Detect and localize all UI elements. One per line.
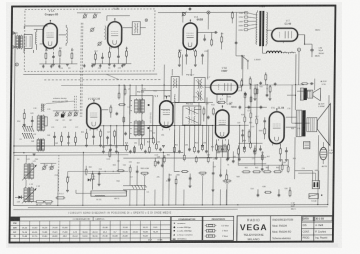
extra parts inside box bottom row	[42, 65, 44, 67]
misc verticals bottom	[57, 169, 59, 205]
dashed line y80	[44, 79, 161, 81]
wires output	[286, 116, 297, 118]
AF coupling	[254, 149, 256, 154]
series cap mains feed	[235, 12, 237, 41]
trimmer C11	[98, 42, 101, 45]
components below V1B	[94, 54, 96, 59]
resistor on rod feed	[57, 197, 64, 199]
top bus wires	[158, 11, 207, 13]
left side small parts	[23, 113, 25, 118]
tube V3	[183, 23, 197, 50]
bottom buses	[13, 204, 328, 207]
AM osc transformer	[37, 139, 40, 150]
junction circle	[207, 11, 210, 14]
AM bus lines	[14, 145, 129, 147]
misc top wires tuner	[123, 27, 132, 29]
scan shadow strip below frame	[8, 244, 338, 248]
bus left vertical	[13, 33, 15, 206]
right vertical wires	[317, 142, 320, 205]
tube V3B CF80	[159, 101, 173, 128]
IF transformer box FM505	[130, 96, 153, 139]
capacitor legend box	[171, 216, 202, 240]
grid parts	[263, 120, 266, 122]
AM converter tube V2	[87, 103, 101, 129]
coil under V4B	[218, 146, 227, 152]
AM osc coils lower-left	[24, 164, 28, 179]
bus y85	[61, 84, 304, 87]
woofer horn	[317, 104, 330, 146]
filament winding	[266, 51, 269, 53]
tube V4B	[215, 110, 229, 138]
mains switch	[242, 56, 247, 60]
components below V2	[86, 133, 88, 138]
electrolytic under woofer	[304, 141, 310, 148]
balun box	[24, 34, 32, 48]
small OM antenna coil	[41, 104, 42, 112]
germanium diode	[15, 196, 19, 198]
capacitor table	[10, 217, 171, 243]
IF can FM502	[183, 106, 201, 125]
misc AM bottom parts	[53, 135, 56, 137]
trimmer C9	[91, 28, 94, 31]
vertical x208 to V4A	[207, 49, 209, 79]
components right of V2	[110, 107, 112, 112]
output transformer woofer	[296, 110, 301, 136]
coil L3	[66, 27, 67, 43]
wires antenna to tube	[34, 28, 43, 30]
line y74.5 below box	[23, 73, 157, 75]
diode parts	[241, 134, 244, 136]
tube V1B	[108, 22, 122, 48]
tone parts middle	[118, 170, 123, 172]
phono connector	[312, 181, 319, 189]
wires above IF strip	[171, 69, 173, 76]
mains wires	[241, 57, 243, 69]
extra vertical wires	[122, 85, 125, 145]
shield partition	[80, 23, 81, 117]
vertical feed x243	[242, 56, 244, 84]
antenna input transformer	[16, 36, 18, 48]
tube V4A horizontal	[211, 80, 238, 94]
cap C20	[189, 7, 192, 9]
switch contacts bottom	[132, 186, 134, 190]
woofer voice coil	[307, 118, 317, 132]
AF diode detector parts	[67, 178, 69, 183]
trimmer top	[182, 12, 185, 15]
wires V1A region	[40, 43, 43, 45]
electrolytic C90	[310, 49, 313, 51]
tone network row	[243, 171, 249, 173]
band switch contacts	[23, 126, 25, 131]
antenna terminals	[12, 32, 14, 34]
title block	[237, 216, 333, 242]
tube V4B lower parts	[216, 145, 218, 150]
components between cans	[203, 109, 205, 114]
bus at y126 AM IF	[99, 124, 249, 126]
trimmer C7	[93, 15, 96, 18]
extra component scatter	[126, 145, 128, 150]
tweeter horn	[313, 88, 321, 101]
cathode resistor	[279, 149, 281, 154]
HT wire	[304, 35, 306, 45]
circled terminal F1	[15, 63, 18, 66]
data rows	[302, 221, 334, 223]
ferrite rod antenna	[91, 191, 127, 196]
ground symbols	[52, 63, 55, 65]
volume pot	[142, 172, 148, 174]
junction block	[61, 114, 64, 117]
right column extra wires	[291, 85, 293, 124]
switch bottom right	[309, 194, 319, 199]
FM IF output can	[132, 22, 140, 35]
resistor under V4A	[218, 101, 225, 103]
terminal circle box edge	[145, 19, 148, 22]
coupling coil L2	[35, 32, 36, 45]
electrolytic filter 2	[320, 147, 327, 159]
middle bottom extras	[129, 167, 131, 171]
variable capacitor trimmers	[43, 166, 46, 169]
FM tuner shield box	[24, 9, 155, 71]
components right of V4A	[241, 81, 243, 86]
components below V3	[179, 52, 181, 57]
IF can T3	[194, 77, 205, 102]
bottom right small parts	[257, 194, 260, 196]
FM osc coil	[105, 26, 106, 40]
inline resistors on bus	[24, 201, 36, 203]
IF can T2	[171, 77, 179, 103]
tweeter transformer	[300, 88, 303, 100]
trafo slug arrows	[22, 166, 36, 181]
trimmer C5	[83, 15, 86, 18]
junction dots	[123, 85, 124, 86]
tweeter top parts	[302, 83, 307, 85]
trimmer row AM	[55, 113, 58, 116]
resistor legend box	[203, 216, 234, 240]
second dashed pair	[73, 96, 75, 117]
junction F	[297, 48, 300, 51]
volume pot AF	[224, 180, 230, 182]
tweeter voice coil	[307, 90, 312, 98]
tube V1A	[43, 23, 57, 48]
tuning gang dashed link	[57, 155, 59, 192]
components right of V3	[203, 38, 206, 40]
resistors V4A bias	[265, 75, 267, 80]
drops to bottom bus	[129, 190, 131, 206]
extra horizontal wires	[124, 125, 164, 127]
vertical feed x183	[181, 55, 183, 76]
bus y158 detector	[198, 156, 266, 158]
rectifier tube V7	[272, 28, 298, 41]
resistor R8	[231, 13, 233, 18]
components below V1A	[45, 53, 47, 58]
output tube V6	[269, 112, 284, 144]
AM ant transformer	[37, 116, 40, 131]
